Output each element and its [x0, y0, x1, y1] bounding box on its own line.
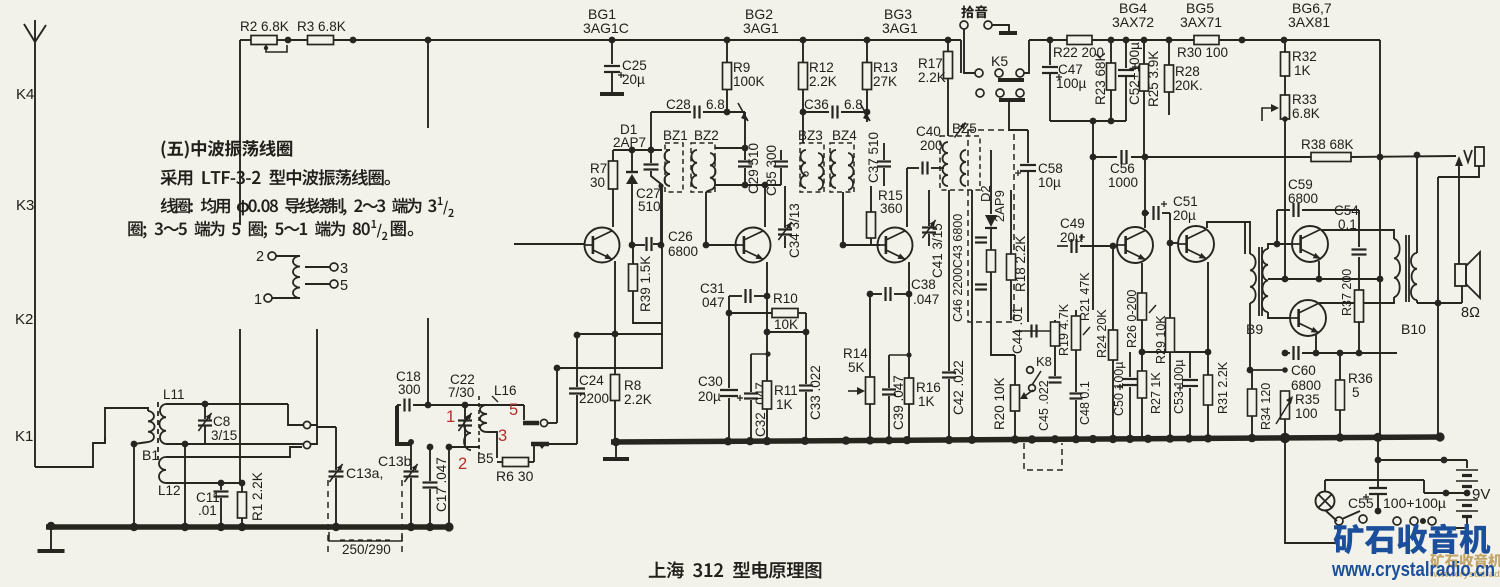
IF transformer BZ5 [940, 121, 980, 190]
capacitor C35 [745, 145, 788, 196]
BG7 [1290, 300, 1326, 336]
svg-text:C33 .022: C33 .022 [808, 365, 823, 420]
svg-text:20µ: 20µ [1173, 208, 1196, 223]
resistor R14 [843, 294, 875, 441]
svg-text:L12: L12 [158, 483, 181, 498]
earphone jack contacts [523, 368, 577, 449]
capacitor C45 [1036, 376, 1062, 441]
wire BZ4 secondary to BG3 base [840, 192, 880, 248]
svg-text:R8: R8 [624, 378, 641, 393]
resistor R23 [1093, 37, 1116, 121]
switch K5 label [991, 53, 1008, 69]
terminal 1 label [446, 408, 455, 426]
wire C47 return [1050, 118, 1126, 125]
resistor R34 [1248, 303, 1288, 438]
svg-text:R12: R12 [809, 60, 834, 75]
svg-text:R23 68K: R23 68K [1093, 52, 1108, 105]
wire top supply rail [353, 39, 1380, 41]
svg-text:R11: R11 [774, 383, 798, 398]
antenna [24, 20, 46, 467]
svg-text:R28: R28 [1175, 64, 1200, 79]
capacitor C42 [942, 190, 966, 441]
svg-text:R1 2.2K: R1 2.2K [250, 472, 265, 521]
svg-text:.01: .01 [198, 503, 217, 518]
wire BG2 collector [764, 185, 766, 227]
svg-text:K5: K5 [991, 53, 1008, 69]
core [157, 402, 159, 460]
potentiometer R26 [1125, 263, 1156, 355]
watermark url [1331, 558, 1495, 581]
resistor R36 [1336, 350, 1373, 438]
capacitor C46 [951, 268, 987, 322]
svg-text:R30 100: R30 100 [1177, 45, 1228, 60]
capacitor C36 [803, 97, 870, 121]
svg-text:R27 1K: R27 1K [1149, 372, 1163, 414]
gnd [603, 442, 629, 459]
BG3 [878, 228, 913, 263]
svg-text:B10: B10 [1401, 321, 1426, 337]
variable capacitor C13a [317, 427, 383, 556]
BG1 [585, 228, 620, 263]
capacitor C49 [1057, 216, 1113, 310]
svg-text:C25: C25 [622, 58, 647, 73]
IF transformer BZ3 [798, 128, 824, 192]
svg-text:1: 1 [254, 292, 262, 308]
capacitor C52 [1118, 37, 1142, 121]
svg-text:C31: C31 [700, 281, 725, 296]
svg-text:2.2K: 2.2K [918, 70, 946, 85]
transistor BG5 label [1180, 0, 1222, 30]
resistor R2 [240, 19, 291, 225]
wire BG3 collector [906, 168, 908, 227]
capacitor C33 [799, 313, 823, 441]
svg-text:C40: C40 [916, 124, 941, 139]
svg-text:R21 47K: R21 47K [1078, 272, 1092, 321]
svg-text:C34 3/13: C34 3/13 [787, 203, 802, 258]
wire BG1 emitter [614, 261, 616, 334]
svg-text:K2: K2 [15, 311, 33, 328]
resistor R9 [723, 37, 765, 116]
on-off switch contacts [1335, 511, 1440, 525]
earphone jack V [1438, 147, 1484, 437]
svg-text:R33: R33 [1292, 92, 1317, 107]
svg-text:.047: .047 [913, 292, 939, 307]
resistor R12 [799, 37, 837, 143]
svg-text:300: 300 [398, 382, 421, 397]
watermark main [1334, 524, 1491, 555]
transistor BG1 label [583, 6, 629, 36]
svg-text:C46 2200: C46 2200 [951, 268, 965, 322]
svg-text:R29 10K: R29 10K [1154, 315, 1168, 364]
svg-text:20µ: 20µ [698, 389, 721, 404]
svg-text:R19 4.7K: R19 4.7K [1057, 303, 1071, 356]
wire BG1 base [514, 243, 585, 245]
wire BZ2 secondary to BG2 base [703, 192, 738, 248]
svg-text:R10: R10 [773, 291, 798, 306]
svg-text:200: 200 [920, 138, 943, 153]
capacitor C47 [1042, 40, 1087, 121]
svg-text:B9: B9 [1246, 321, 1263, 337]
potentiometer R21 [1072, 272, 1093, 392]
diode D1 [626, 150, 638, 245]
svg-text:3AG1: 3AG1 [882, 20, 918, 36]
svg-text:1K: 1K [776, 397, 793, 412]
capacitor C39 [882, 352, 912, 441]
svg-text:C8: C8 [213, 414, 230, 429]
node K1 label [15, 428, 33, 445]
node K3 label [16, 197, 34, 214]
svg-text:C42 .022: C42 .022 [951, 360, 966, 415]
resistor R19 [1051, 303, 1072, 376]
svg-text:20µ: 20µ [1060, 230, 1083, 245]
transistor BG3 label [882, 6, 918, 36]
wire BG5 base [1170, 242, 1178, 244]
wire BG7 collector [1319, 297, 1394, 303]
svg-text:L11: L11 [163, 387, 185, 402]
capacitor C38 [867, 277, 940, 307]
svg-text:C30: C30 [698, 374, 723, 389]
svg-text:C43 6800: C43 6800 [951, 214, 965, 268]
resistor R28 [1165, 37, 1203, 115]
resistor R6 [496, 446, 534, 484]
capacitor C53 [1172, 352, 1198, 441]
wire B9 center tap [1268, 276, 1383, 283]
svg-text:20K.: 20K. [1175, 78, 1203, 93]
variable capacitor C13b [378, 406, 419, 556]
svg-text:3: 3 [498, 427, 507, 445]
resistor R11 [763, 262, 798, 441]
svg-text:250/290: 250/290 [342, 542, 391, 557]
detector dashed box [968, 130, 1014, 322]
wire BG5 collector [1207, 222, 1245, 254]
resistor R24 [1095, 243, 1118, 441]
svg-text:C59: C59 [1288, 177, 1313, 192]
svg-text:5: 5 [340, 278, 348, 294]
svg-text:5K: 5K [848, 360, 865, 375]
capacitor C18 [396, 369, 468, 429]
svg-text:360: 360 [880, 201, 903, 216]
svg-text:2.2K: 2.2K [809, 74, 837, 89]
switch K5 [961, 40, 1029, 130]
svg-text:R6 30: R6 30 [496, 468, 534, 484]
wire BG7 emitter [1313, 335, 1320, 356]
diode D2 label [978, 185, 1007, 222]
speaker [1455, 156, 1480, 321]
svg-text:C58: C58 [1038, 161, 1063, 176]
svg-text:C54: C54 [1334, 203, 1359, 218]
svg-text:R16: R16 [916, 380, 941, 395]
svg-text:C49: C49 [1060, 216, 1085, 231]
winding L11 secondary [159, 387, 303, 527]
IF transformer BZ4 [830, 128, 857, 192]
transformer B9 [1245, 222, 1292, 373]
svg-text:2: 2 [256, 249, 264, 265]
capacitor C31 [700, 281, 770, 310]
capacitor C8 [198, 404, 237, 444]
svg-text:C38: C38 [911, 277, 936, 292]
capacitor C30 [698, 296, 743, 441]
wire osc terminal 2 [446, 444, 480, 527]
svg-text:20µ: 20µ [622, 72, 645, 87]
svg-text:6.8: 6.8 [706, 97, 725, 112]
wire BG6 emitter [1318, 261, 1320, 279]
svg-text:C24: C24 [579, 373, 604, 388]
svg-text:C60: C60 [1291, 363, 1316, 378]
svg-text:R18 2.2K: R18 2.2K [1013, 236, 1028, 292]
svg-text:R13: R13 [873, 60, 898, 75]
svg-text:R37 200: R37 200 [1340, 269, 1354, 316]
svg-text:R2 6.8K: R2 6.8K [240, 19, 289, 34]
svg-text:27K: 27K [873, 74, 897, 89]
resistor R8 [611, 331, 652, 441]
resistor R29 [1154, 213, 1175, 441]
wire BG1 collector node [613, 147, 662, 154]
winding L12 [158, 447, 302, 498]
svg-text:C45 .022: C45 .022 [1037, 380, 1051, 431]
capacitor C24 [569, 332, 609, 444]
wire BG6 collector [1321, 230, 1394, 239]
svg-text:BZ3: BZ3 [798, 128, 823, 143]
svg-text:8Ω: 8Ω [1461, 305, 1480, 321]
svg-text:2.2K: 2.2K [624, 392, 652, 407]
battery B1 cells [1440, 460, 1490, 528]
gnd [38, 527, 65, 551]
svg-text:3AX72: 3AX72 [1112, 14, 1154, 30]
resistor R30 [1177, 36, 1287, 61]
svg-text:3: 3 [340, 261, 348, 277]
IF transformer BZ1 [663, 128, 688, 192]
svg-text:R9: R9 [733, 60, 750, 75]
svg-text:047: 047 [702, 295, 725, 310]
annotation text block [128, 140, 453, 240]
svg-text:BZ2: BZ2 [694, 128, 719, 143]
node K4 label [16, 86, 34, 103]
svg-text:1K: 1K [1294, 63, 1311, 78]
BG2 [736, 228, 771, 263]
resistor R31 [1204, 262, 1231, 441]
wire band-switch step [35, 437, 105, 467]
svg-text:C13b: C13b [378, 453, 412, 469]
capacitor C43 [951, 190, 987, 441]
svg-text:B5: B5 [477, 451, 494, 466]
resistor R39 [629, 245, 663, 323]
svg-text:2AP7: 2AP7 [613, 135, 646, 150]
detector load resistor [987, 250, 996, 272]
svg-text:7/30: 7/30 [448, 385, 474, 400]
svg-text:B1: B1 [142, 447, 159, 463]
pickup label [961, 5, 987, 18]
capacitor C48 [1070, 381, 1093, 441]
capacitor C27 [636, 150, 664, 245]
svg-text:R31 2.2K: R31 2.2K [1216, 361, 1230, 414]
pickup jack [960, 21, 1017, 73]
svg-text:R36: R36 [1348, 371, 1373, 386]
svg-text:C47: C47 [1058, 62, 1083, 77]
capacitor C29 [715, 112, 761, 194]
svg-text:C48 0.1: C48 0.1 [1078, 381, 1092, 425]
svg-text:R25 3.9K: R25 3.9K [1146, 51, 1161, 107]
wire lamp loop [1325, 480, 1424, 491]
svg-text:C56: C56 [1110, 161, 1135, 176]
transformer B10 [1394, 157, 1426, 337]
sample coil LTF-3-2 [254, 249, 348, 308]
ground bus [611, 432, 1445, 446]
capacitor C60 [1282, 346, 1397, 393]
svg-text:K4: K4 [16, 86, 34, 103]
BG6 [1292, 226, 1328, 262]
svg-text:R26 0-200: R26 0-200 [1125, 290, 1139, 348]
wire osc feedback [554, 334, 663, 371]
wire rail drop [1379, 40, 1381, 438]
svg-text:R32: R32 [1292, 49, 1317, 64]
wire BG1 collector riser [661, 186, 663, 368]
transformer B1 winding L11 [105, 408, 159, 527]
svg-text:C41 3/15: C41 3/15 [930, 223, 945, 278]
variable capacitor C22 [448, 372, 475, 447]
wire battery tap [1424, 480, 1467, 496]
BG4 [1117, 227, 1153, 263]
svg-text:C17 .047: C17 .047 [434, 457, 449, 512]
lamp [1316, 492, 1338, 522]
svg-text:BZ1: BZ1 [663, 128, 688, 143]
svg-text:C51: C51 [1173, 194, 1198, 209]
diode D1 label [613, 122, 646, 150]
svg-text:3AG1C: 3AG1C [583, 20, 629, 36]
capacitor C17 [423, 444, 450, 527]
svg-text:10µ: 10µ [1038, 175, 1061, 190]
svg-text:10K: 10K [774, 317, 798, 332]
resistor R38 [1144, 137, 1456, 162]
svg-text:C35 300: C35 300 [764, 145, 779, 196]
svg-text:C53 100µ: C53 100µ [1172, 360, 1186, 414]
svg-text:K1: K1 [15, 428, 33, 445]
transistor BG2 label [743, 6, 779, 36]
diode D2 [985, 150, 997, 320]
wire BG4 base [1113, 245, 1117, 247]
capacitor C25 [600, 37, 647, 94]
resistor R22 [1047, 36, 1104, 61]
svg-text:R3 6.8K: R3 6.8K [297, 19, 346, 34]
variable capacitor C41 [922, 190, 945, 278]
caption [649, 561, 822, 578]
capacitor C58 [1015, 130, 1063, 322]
svg-text:R34 120: R34 120 [1259, 383, 1273, 430]
capacitor C37 [866, 112, 891, 186]
node K2 label [15, 311, 33, 328]
svg-text:1000: 1000 [1108, 175, 1138, 190]
gang label 250/290 [329, 532, 402, 557]
wire antenna coupling [425, 37, 432, 405]
switch K8 [1027, 320, 1052, 391]
wire emitter bus BG4 BG5 [1142, 349, 1211, 356]
capacitor C51 [1145, 194, 1198, 223]
capacitor C54 [1334, 203, 1367, 290]
dashed gang link K8 [1024, 443, 1062, 470]
svg-text:3AG1: 3AG1 [743, 20, 779, 36]
potentiometer R33 [1262, 92, 1320, 279]
watermark ghost [1429, 553, 1500, 580]
svg-text:6.8K: 6.8K [1292, 106, 1320, 121]
svg-text:510: 510 [638, 199, 661, 214]
svg-text:5: 5 [509, 401, 518, 419]
resistor R16 [905, 262, 941, 441]
svg-text:6800: 6800 [668, 244, 698, 259]
osc coil L16 B5 [464, 383, 524, 466]
svg-text:5: 5 [1352, 385, 1360, 400]
transistor BG4 label [1112, 0, 1154, 30]
svg-text:R24 20K: R24 20K [1095, 309, 1109, 358]
capacitor C32 [744, 351, 771, 441]
resistor R15 [867, 186, 903, 245]
wire battery feed [1375, 438, 1467, 463]
capacitor C40 [907, 124, 944, 175]
svg-text:C29 510: C29 510 [746, 143, 761, 194]
IF transformer BZ2 [691, 128, 719, 192]
svg-text:100: 100 [1295, 406, 1318, 421]
wire lamp return [1285, 441, 1338, 543]
resistor R13 [863, 37, 898, 122]
terminal 5 label [509, 401, 518, 419]
resistor R25 [1140, 37, 1162, 157]
resistor R7 [590, 150, 618, 227]
svg-text:R14: R14 [843, 346, 868, 361]
resistor R3 [288, 19, 356, 45]
svg-text:R17: R17 [918, 56, 943, 71]
wire BG4 collector [1142, 154, 1149, 228]
capacitor C56 [1090, 150, 1311, 190]
svg-text:R39 1.5K: R39 1.5K [638, 256, 653, 312]
capacitor C59 [1274, 177, 1359, 247]
terminal 2 label [458, 455, 467, 473]
svg-text:C55: C55 [1348, 495, 1374, 511]
resistor R10 [726, 291, 806, 332]
svg-text:100+100µ: 100+100µ [1383, 495, 1446, 511]
capacitor C50 [1112, 352, 1138, 441]
svg-text:100µ: 100µ [1056, 76, 1087, 91]
svg-text:C36: C36 [804, 97, 829, 112]
svg-text:C28: C28 [666, 97, 691, 112]
svg-text:R38 68K: R38 68K [1301, 137, 1354, 152]
resistor R18 [1007, 190, 1029, 320]
resistor R32 [1281, 40, 1317, 95]
svg-text:100K: 100K [733, 74, 765, 89]
svg-text:1: 1 [446, 408, 455, 426]
svg-text:K3: K3 [16, 197, 34, 214]
svg-text:K8: K8 [1036, 354, 1052, 369]
svg-text:www.crystalradio.cn: www.crystalradio.cn [1331, 558, 1495, 581]
svg-text:R7: R7 [590, 161, 607, 176]
svg-text:C26: C26 [668, 229, 693, 244]
svg-text:30: 30 [590, 175, 605, 190]
resistor R1 [238, 329, 266, 527]
BG5 [1178, 226, 1214, 262]
svg-text:3AX71: 3AX71 [1180, 14, 1222, 30]
svg-text:3AX81: 3AX81 [1288, 14, 1330, 30]
svg-text:R20 10K: R20 10K [992, 377, 1007, 430]
svg-text:C37 510: C37 510 [866, 132, 881, 183]
jack K antenna contacts [303, 329, 317, 449]
wire speaker return [1417, 286, 1462, 306]
potentiometer R35 [1276, 391, 1320, 438]
svg-text:R35: R35 [1295, 392, 1320, 407]
svg-text:3/15: 3/15 [211, 428, 237, 443]
variable capacitor C34 [778, 186, 802, 258]
wire detector out [972, 320, 1015, 355]
potentiometer R20 [992, 355, 1033, 441]
capacitor C26 [629, 229, 698, 259]
resistor R27 [1138, 352, 1164, 441]
wire volume feed [1092, 121, 1094, 310]
